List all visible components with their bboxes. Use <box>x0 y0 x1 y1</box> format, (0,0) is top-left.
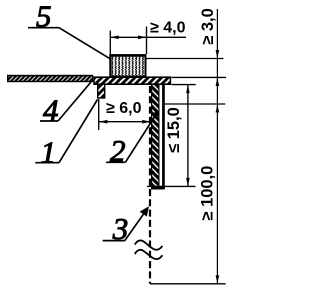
svg-text:≥ 100,0: ≥ 100,0 <box>198 166 216 221</box>
svg-text:≥ 6,0: ≥ 6,0 <box>106 100 142 117</box>
svg-text:1: 1 <box>41 134 57 169</box>
svg-text:≥ 3,0: ≥ 3,0 <box>199 8 217 45</box>
svg-text:≤ 15,0: ≤ 15,0 <box>165 107 183 153</box>
svg-text:4: 4 <box>43 93 59 128</box>
svg-text:≥ 4,0: ≥ 4,0 <box>150 20 186 37</box>
